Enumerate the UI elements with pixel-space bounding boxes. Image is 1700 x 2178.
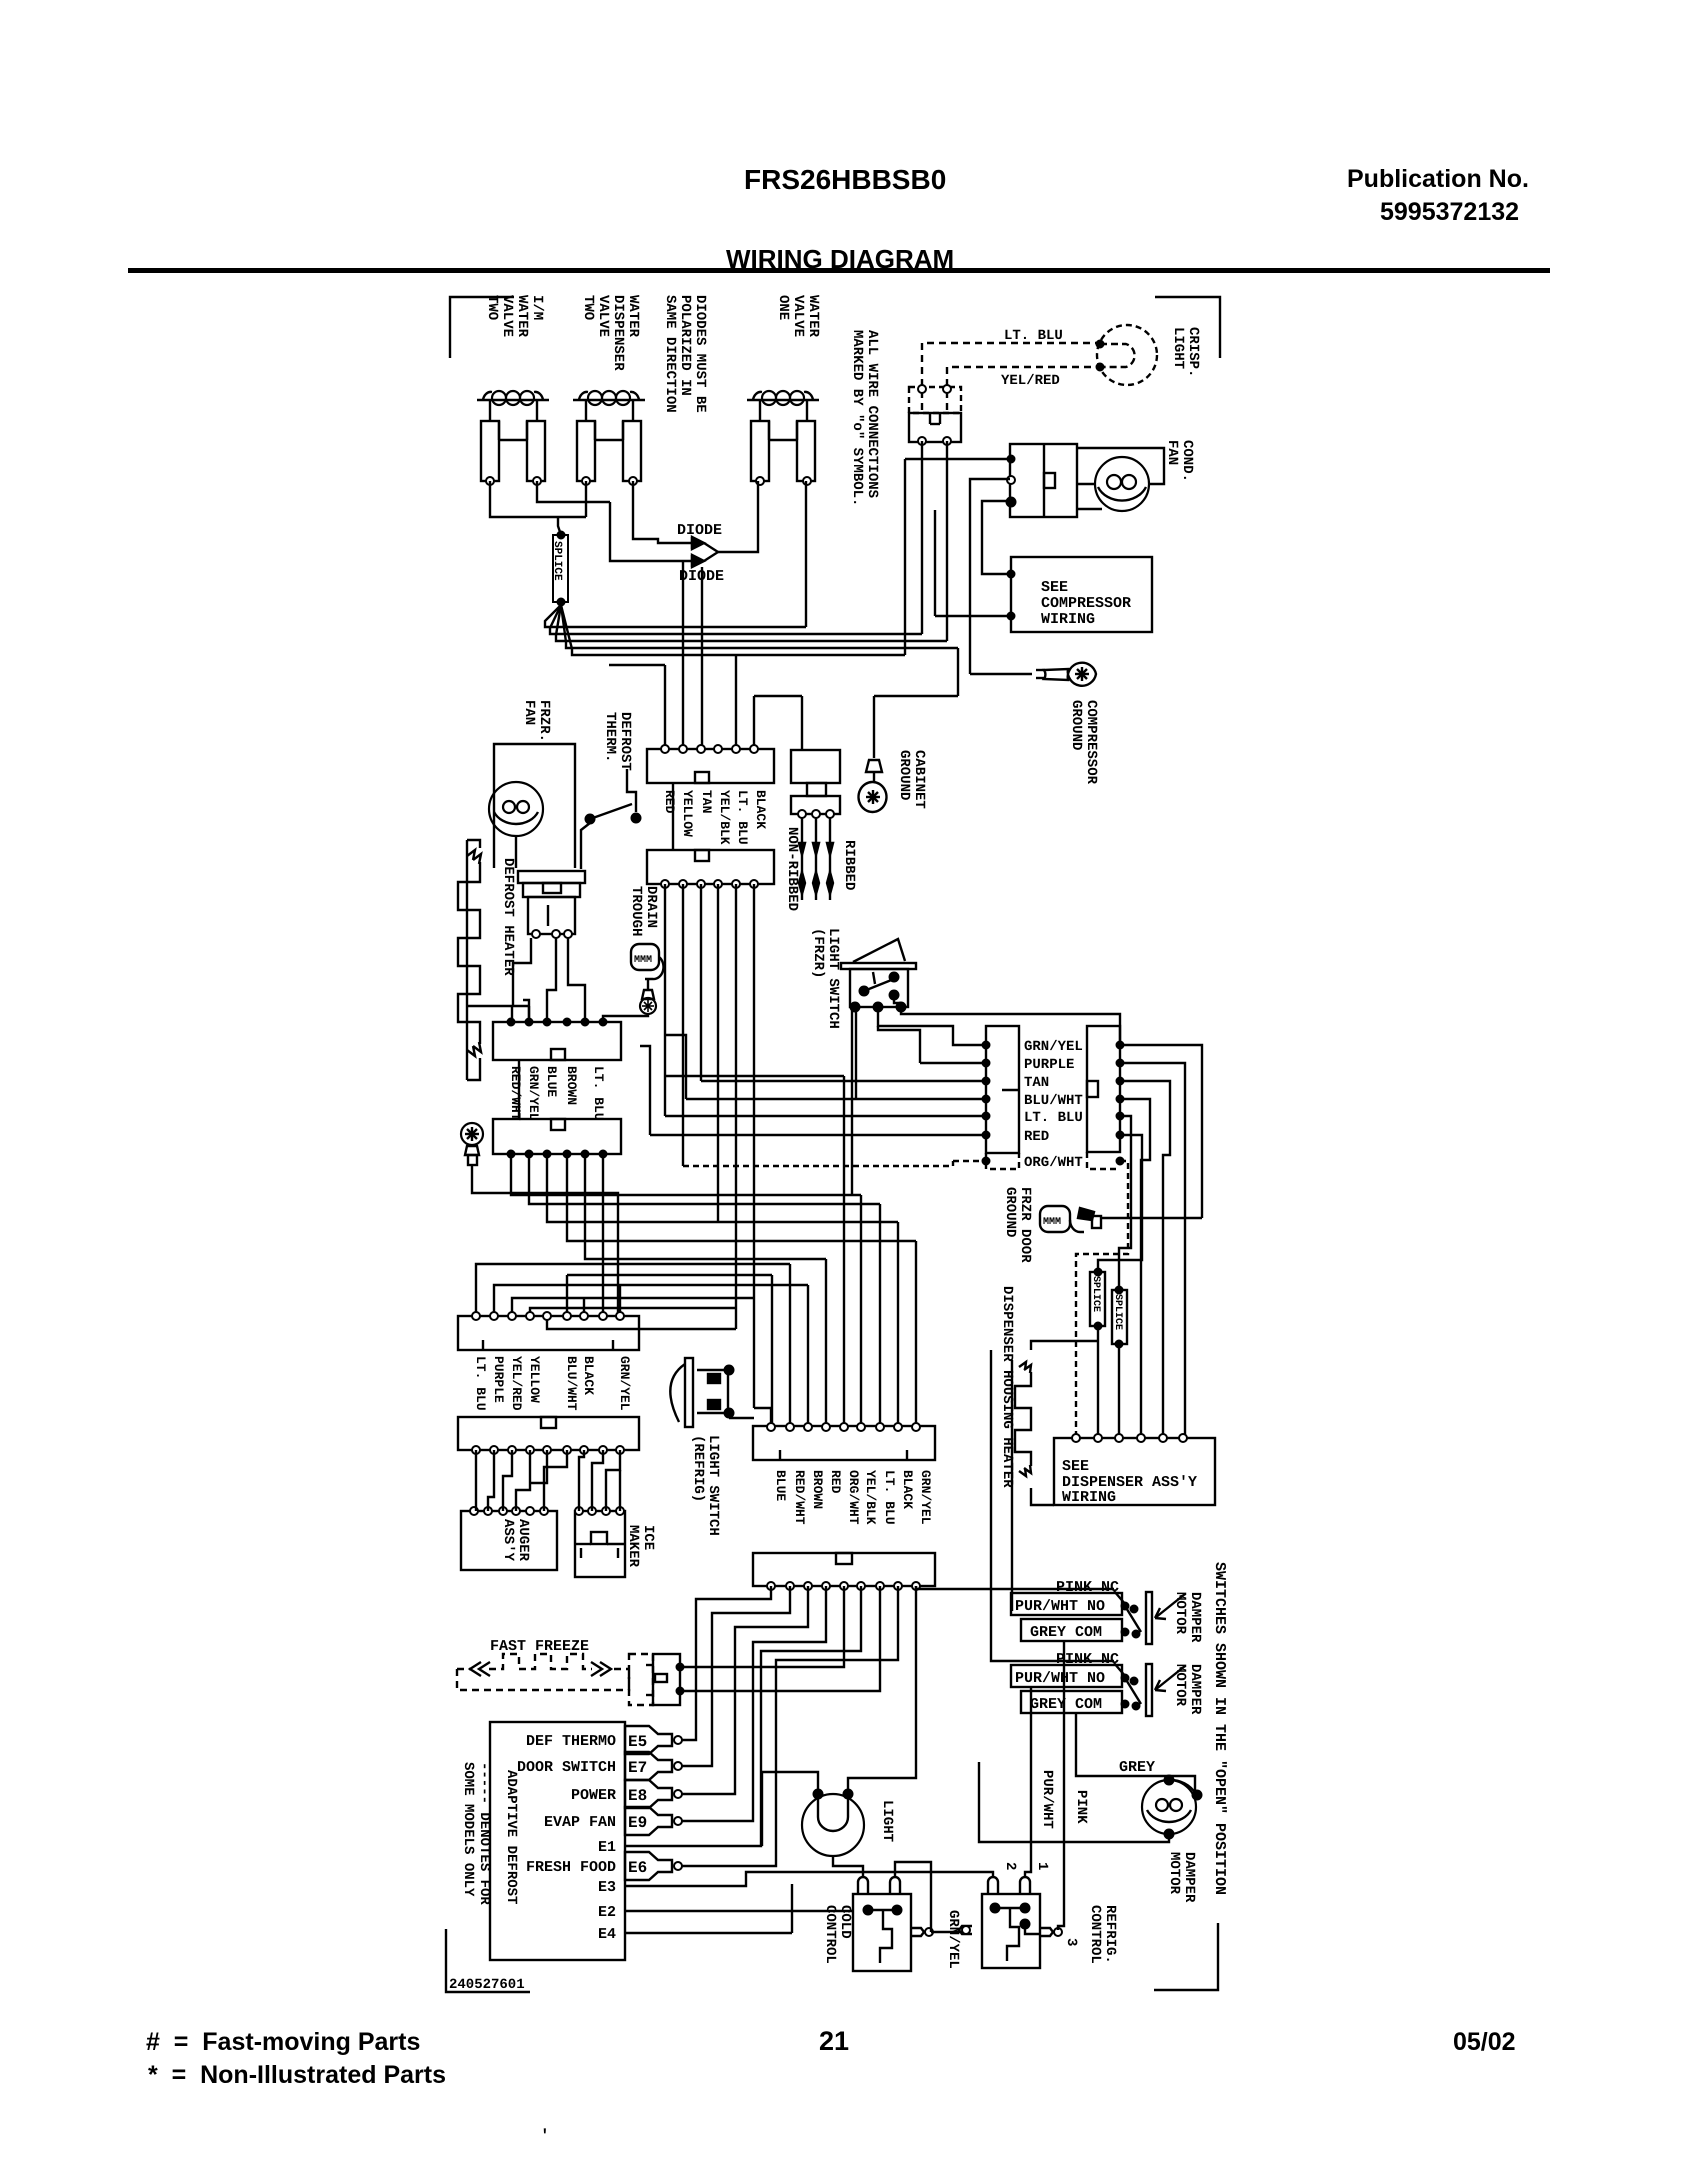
svg-text:VALVE: VALVE [595,295,611,337]
ground pin left [465,1146,479,1155]
wire grey com 1 to pin 3 [1058,1642,1064,1930]
wire purple B2 [1120,1063,1185,1438]
block B2 dashed bottom [1087,1152,1120,1169]
wire grn/yel B2 [1120,1045,1202,1218]
dispenser housing heater element [1015,1372,1031,1466]
svg-text:DAMPER: DAMPER [1187,1664,1203,1715]
svg-text:RIBBED: RIBBED [841,840,857,890]
wire cond fan to bus [905,458,1010,460]
label PUR/WHT vertical [1039,1770,1055,1829]
svg-text:ONE: ONE [775,295,791,320]
wire E1 riser [706,1586,861,1846]
svg-text:POWER: POWER [571,1787,616,1804]
svg-text:AUGER: AUGER [515,1519,531,1562]
svg-text:RED: RED [662,790,677,814]
wire LT. BLU dashed to crisper light [922,343,1100,410]
board plain row wires [625,1845,706,1847]
svg-text:WATER: WATER [514,295,530,338]
svg-text:FAST FREEZE: FAST FREEZE [490,1638,589,1655]
box REFRIG CONTROL [982,1894,1040,1968]
svg-text:DIODE: DIODE [677,522,722,539]
box SEE COMPRESSOR WIRING [1011,557,1152,632]
svg-text:SEE: SEE [1041,579,1068,596]
label SOME MODELS ONLY / DENOTES FOR [460,1762,476,1897]
svg-text:YEL/RED: YEL/RED [509,1356,524,1411]
svg-text:E3: E3 [598,1879,616,1896]
label NON-RIBBED [784,827,800,911]
svg-text:FRZR.: FRZR. [536,700,552,742]
svg-text:2: 2 [1002,1862,1018,1870]
svg-text:240527601: 240527601 [449,1977,525,1993]
wire grey com 2 to damper motor [1076,1712,1195,1793]
svg-text:PUR/WHT NO: PUR/WHT NO [1015,1670,1105,1687]
wire bus jogs [664,665,666,749]
svg-text:COLD: COLD [837,1905,853,1939]
svg-text:PUR/WHT NO: PUR/WHT NO [1015,1598,1105,1615]
label FRZR DOOR GROUND [1002,1187,1033,1263]
svg-text:TAN: TAN [1024,1075,1049,1091]
wire mesh dashed org/wht [953,1160,986,1162]
wire blu/wht B2 [1120,1099,1150,1438]
cabinet ground lug [859,782,887,812]
wire cabinet ground feed [874,695,958,697]
refrig control internal [1007,1908,1019,1961]
note: ALL WIRE CONNECTIONS MARKED BY o SYMBOL [849,330,880,506]
svg-text:YEL/RED: YEL/RED [1001,373,1060,389]
wire E5 riser [682,1586,771,1740]
svg-text:BLU/WHT: BLU/WHT [564,1356,579,1411]
wires light switch to blocks [851,1010,853,1195]
label CRISP. LIGHT [1170,327,1201,377]
svg-text:SAME DIRECTION: SAME DIRECTION [662,295,678,413]
refrig control pins [988,1877,998,1894]
svg-text:TAN: TAN [699,790,714,813]
svg-text:DEF THERMO: DEF THERMO [526,1733,616,1750]
svg-text:EVAP FAN: EVAP FAN [544,1814,616,1831]
wire E3 riser [743,1872,993,1886]
svg-text:WATER: WATER [805,295,821,338]
label LIGHT SWITCH (REFRIG) [690,1435,721,1536]
footer fast-moving [146,2028,420,2057]
svg-text:BLACK: BLACK [581,1356,596,1395]
svg-text:DAMPER: DAMPER [1181,1852,1197,1903]
label SWITCHES SHOWN IN THE OPEN POSITION [1211,1562,1228,1895]
svg-text:WATER: WATER [625,295,641,338]
wire E8 riser [682,1586,808,1794]
wires cold control pins up [833,1857,863,1878]
defrost heater terminal assembly [518,871,585,883]
svg-text:BROWN: BROWN [810,1470,825,1509]
svg-text:----- DENOTES FOR: ----- DENOTES FOR [476,1762,492,1905]
diode output wires [704,543,718,561]
svg-text:E7: E7 [628,1759,647,1777]
footer page number [819,2026,849,2057]
cold control pins [858,1877,868,1894]
wire bundle from splice (5 wires) [545,605,806,627]
wire J3-J4 link [518,1060,520,1119]
svg-text:DISPENSER: DISPENSER [610,295,626,371]
svg-text:ORG/WHT: ORG/WHT [1024,1155,1083,1171]
light switch refrig symbol [685,1358,693,1427]
light switch frzr symbol [841,963,916,969]
svg-text:LIGHT SWITCH: LIGHT SWITCH [705,1435,721,1536]
wire ground to strip A [472,1165,618,1316]
defrost heater element [458,862,480,1044]
connector strip A (9-pin) [458,1316,639,1350]
svg-text:3: 3 [1063,1938,1079,1946]
connector block cond fan [1010,444,1077,517]
svg-text:LT. BLU: LT. BLU [882,1470,897,1525]
svg-text:GROUND: GROUND [1002,1187,1018,1237]
diode D2 [692,555,704,567]
wire light switch refrig [729,1417,754,1419]
wire YEL/RED dashed to crisper light [947,367,1100,410]
svg-text:(REFRIG): (REFRIG) [690,1435,706,1502]
note: DIODES MUST BE POLARIZED IN SAME DIRECTION [662,295,708,413]
connector block B1 (grn/yel..org/wht) [986,1026,1019,1153]
wire E4 riser [791,1884,793,1933]
svg-text:MMM: MMM [634,955,652,966]
svg-text:E4: E4 [598,1926,616,1943]
svg-text:TWO: TWO [484,295,500,320]
light bulb [802,1794,864,1856]
svg-text:LIGHT: LIGHT [1170,327,1186,369]
crisper light lamp [1097,325,1157,385]
label DEFROST HEATER [500,858,516,976]
svg-text:E9: E9 [628,1814,647,1832]
wire splice S1 down [1097,1326,1099,1438]
drain trough heater [631,944,659,970]
svg-text:E6: E6 [628,1859,647,1877]
connector strip B (9-pin) [458,1417,639,1450]
svg-text:DEFROST: DEFROST [617,712,633,771]
wire fast freeze feeds [680,1586,844,1667]
svg-text:GREY COM: GREY COM [1030,1624,1102,1641]
wire risers to strip B1 [771,1275,773,1427]
wire red B2 [1098,1135,1142,1272]
wire lt.blu B2 [1119,1116,1131,1290]
svg-text:CONTROL: CONTROL [822,1905,838,1964]
diode D1 [692,537,704,549]
splice S2 [1112,1290,1127,1344]
svg-text:GREY: GREY [1119,1759,1155,1776]
svg-text:DOOR SWITCH: DOOR SWITCH [517,1759,616,1776]
box AUGER ASS'Y [461,1511,557,1570]
wire tan B2 [1120,1081,1170,1438]
svg-text:(FRZR): (FRZR) [810,928,826,978]
compressor ground lug [1044,663,1096,686]
svg-text:LT. BLU: LT. BLU [1024,1110,1083,1126]
frame corner top-left [450,297,514,358]
svg-text:ASS'Y: ASS'Y [500,1519,516,1562]
wire defrost heater bottom [467,1058,480,1080]
wire E9 riser [682,1586,826,1821]
svg-text:1: 1 [1034,1862,1050,1870]
svg-text:ALL WIRE CONNECTIONS: ALL WIRE CONNECTIONS [864,330,880,498]
wire to compressor wiring box [935,615,1011,617]
frame corner top-right [1155,297,1220,358]
svg-text:DIODES MUST BE: DIODES MUST BE [692,295,708,413]
svg-text:LT. BLU: LT. BLU [735,790,750,845]
svg-text:YEL/BLK: YEL/BLK [863,1470,878,1525]
cold control internal [880,1910,892,1963]
wire valve1-right to bus [537,481,610,502]
svg-text:LT. BLU: LT. BLU [473,1356,488,1411]
svg-text:CRISP.: CRISP. [1185,327,1201,377]
svg-text:FAN: FAN [521,700,537,725]
label COMPRESSOR GROUND [1068,700,1099,785]
label LIGHT SWITCH (FRZR) [810,928,841,1029]
pin labels 2 and 1 [1002,1862,1018,1870]
svg-text:MMM: MMM [1043,1217,1061,1228]
solenoid valve: I/M WATER VALVE TWO [477,399,549,401]
wire long riser x844 [843,1076,845,1427]
wire pur/wht no 1 feed [1011,1360,1013,1611]
box SEE DISPENSER ASS'Y WIRING [1054,1438,1215,1505]
svg-text:GROUND: GROUND [1068,700,1084,750]
svg-text:RED/WHT: RED/WHT [792,1470,807,1525]
wire pur/wht no 2 to pin 1 [1025,1688,1031,1878]
svg-text:MARKED BY "o" SYMBOL.: MARKED BY "o" SYMBOL. [849,330,865,506]
svg-text:LT. BLU: LT. BLU [1004,328,1063,344]
svg-text:LT. BLU: LT. BLU [591,1066,606,1121]
frzr door ground heater [1040,1206,1070,1232]
label COLD CONTROL [822,1905,853,1964]
svg-text:GRN/YEL: GRN/YEL [945,1910,961,1969]
svg-text:VALVE: VALVE [790,295,806,337]
wire mesh row 1308 [530,1308,736,1316]
solenoid valve: WATER DISPENSER VALVE TWO [573,399,645,401]
connector block B2 [1087,1026,1120,1152]
title [726,244,954,275]
svg-text:MOTOR: MOTOR [1172,1592,1188,1635]
svg-text:FAN: FAN [1164,440,1180,465]
svg-text:DAMPER: DAMPER [1187,1592,1203,1643]
wire frzr door ground to bus [1101,1217,1202,1219]
splice S1 [1090,1272,1105,1326]
svg-text:YEL/BLK: YEL/BLK [717,790,732,845]
wires light feeds [762,1772,818,1846]
wire dispenser heater bottom [1031,1488,1054,1505]
svg-text:ICE: ICE [640,1525,656,1550]
wires strip B to auger [475,1450,477,1511]
wire valve1 to splice [490,481,586,517]
svg-text:E8: E8 [628,1787,647,1805]
label PINK vertical [1073,1790,1089,1824]
svg-text:SPLICE: SPLICE [551,541,563,581]
box ICE MAKER [575,1511,625,1577]
svg-text:FRESH FOOD: FRESH FOOD [526,1859,616,1876]
svg-text:SPLICE: SPLICE [1112,1294,1123,1330]
wire mesh row 1298 [512,1298,754,1316]
damper motor [1142,1780,1196,1834]
fast freeze switch [629,1654,653,1705]
label LIGHT [879,1800,895,1842]
wire J1-J2 link [672,783,674,850]
label COND. FAN [1164,440,1195,482]
wire org/wht B2 dashed [1076,1161,1128,1438]
connector supply plug (ribbed/non-ribbed) [791,750,840,783]
svg-text:SWITCHES SHOWN IN THE "OPEN" P: SWITCHES SHOWN IN THE "OPEN" POSITION [1211,1562,1228,1895]
wire E7 riser [682,1586,790,1766]
label ICE MAKER [625,1525,656,1568]
svg-text:BROWN: BROWN [564,1066,579,1105]
frzr fan enclosure [494,744,575,868]
wire bus verticals from J2 down [664,884,666,1116]
svg-text:COMPRESSOR: COMPRESSOR [1083,700,1099,785]
ground lug left [461,1123,483,1145]
labels strip A wire colors [473,1356,488,1411]
svg-text:BLACK: BLACK [753,790,768,829]
label FRZR. FAN [521,700,552,742]
cond fan motor [1095,457,1149,511]
svg-text:TWO: TWO [580,295,596,320]
svg-text:DRAIN: DRAIN [643,886,659,928]
svg-text:GRN/YEL: GRN/YEL [918,1470,933,1525]
refrig left pin [959,1926,972,1934]
svg-text:WIRING: WIRING [1041,611,1095,628]
svg-text:E2: E2 [598,1904,616,1921]
svg-text:GRN/YEL: GRN/YEL [526,1066,541,1121]
wire dispenser heater top [1031,1341,1098,1350]
svg-text:DEFROST HEATER: DEFROST HEATER [500,858,516,976]
dispenser heater arrows [1019,1362,1031,1373]
label GRN/YEL vertical [945,1910,961,1969]
wire valve2-left down [585,481,587,517]
wire mesh row 1408 [754,1408,771,1427]
wire diode bus down [682,560,684,749]
svg-text:YELLOW: YELLOW [527,1356,542,1403]
connector strip B1 (9-pin) [753,1426,935,1460]
defrost heater arrows [467,850,481,864]
drain trough ground pin [647,979,649,990]
svg-text:RED/WHT: RED/WHT [508,1066,523,1121]
svg-text:ORG/WHT: ORG/WHT [846,1470,861,1525]
svg-text:GREY COM: GREY COM [1030,1696,1102,1713]
block B1 dashed bottom (org/wht) [986,1153,1019,1169]
supply wires with pins [801,818,803,843]
svg-text:MOTOR: MOTOR [1166,1852,1182,1895]
wire defrost heater top [467,840,480,848]
svg-text:MAKER: MAKER [625,1525,641,1568]
svg-text:SEE: SEE [1062,1458,1089,1475]
labels strip J1 wire colors [662,790,677,814]
solenoid valve: WATER VALVE ONE [747,399,819,401]
svg-text:CABINET: CABINET [911,750,927,809]
footer date [1453,2028,1516,2057]
frame corner bottom-left [446,1929,530,1992]
fast freeze dashed element [489,1654,592,1669]
labels strip B1 wire colors [773,1470,788,1501]
svg-text:BLACK: BLACK [900,1470,915,1509]
svg-text:': ' [540,2127,550,2145]
label CABINET GROUND [896,750,927,809]
svg-text:THERM.: THERM. [602,712,618,762]
wire mesh staircase from J4 [511,1154,861,1195]
svg-text:POLARIZED IN: POLARIZED IN [677,295,693,396]
svg-text:REFRIG.: REFRIG. [1102,1905,1118,1964]
header model number [744,164,946,196]
svg-text:E1: E1 [598,1839,616,1856]
svg-text:VALVE: VALVE [499,295,515,337]
wire splice bundle risers [805,481,807,627]
svg-text:PUR/WHT: PUR/WHT [1039,1770,1055,1829]
wire E6 riser [682,1586,898,1866]
frame corner bottom-right [1154,1923,1218,1990]
svg-text:PURPLE: PURPLE [1024,1057,1074,1073]
svg-text:YELLOW: YELLOW [680,790,695,837]
svg-text:E5: E5 [628,1733,647,1751]
wire pink nc 1 [916,1588,1114,1590]
wire J3 dot2 feed [523,1000,529,1022]
refrig control side pin 3 [1040,1928,1053,1936]
wire drain trough feed [603,1014,648,1022]
box COLD CONTROL [853,1894,911,1971]
box ADAPTIVE DEFROST board [490,1722,625,1960]
wire damper motor bottom [979,1762,1169,1842]
header publication no [1347,165,1529,194]
label DAMPER MOTOR (bottom) [1166,1852,1197,1903]
title rule [128,268,1550,273]
svg-text:PURPLE: PURPLE [491,1356,506,1403]
label DEFROST THERM. [602,712,633,771]
label DISPENSER HOUSING HEATER [999,1286,1015,1488]
cabinet ground wire [873,696,875,758]
label RIBBED [841,840,857,890]
wire mesh row 1285 [494,1285,808,1316]
svg-text:ADAPTIVE DEFROST: ADAPTIVE DEFROST [503,1770,519,1904]
wire compressor ground lead [970,673,1032,675]
svg-text:BLUE: BLUE [544,1066,559,1097]
svg-text:RED: RED [828,1470,843,1494]
svg-text:COMPRESSOR: COMPRESSOR [1041,595,1131,612]
svg-text:GROUND: GROUND [896,750,912,800]
diode input wires [633,481,692,543]
wire assembly feeds [513,938,531,1006]
connector strip J2 [647,850,774,884]
wire heater to J3 [466,840,468,1080]
wire mesh horizontals to block B1 [701,1080,986,1082]
svg-text:GRN/YEL: GRN/YEL [1024,1039,1083,1055]
connector strip B2 (9-pin) [753,1553,935,1586]
svg-text:WIRING: WIRING [1062,1489,1116,1506]
svg-text:GRN/YEL: GRN/YEL [617,1356,632,1411]
svg-text:CONTROL: CONTROL [1087,1905,1103,1964]
wire mesh row 1264 [476,1264,790,1316]
svg-text:MOTOR: MOTOR [1172,1664,1188,1707]
svg-text:SPLICE: SPLICE [1090,1276,1101,1312]
connector plug crisper light [909,387,961,413]
cond fan frame wires [1077,448,1164,484]
svg-text:LIGHT: LIGHT [879,1800,895,1842]
svg-text:TROUGH: TROUGH [628,886,644,936]
cold control side pin [911,1928,924,1936]
connector strip J4 [493,1119,621,1154]
wire mesh row 1329 [547,1316,736,1329]
connector strip J1 (black/lt.blu/yel-blk/tan/yellow/red) [647,749,774,783]
svg-text:NON-RIBBED: NON-RIBBED [784,827,800,911]
svg-text:FRZR DOOR: FRZR DOOR [1017,1187,1033,1263]
label REFRIG. CONTROL [1087,1905,1118,1964]
wire pink nc 2 feed [991,1350,1114,1661]
connector strip J3 [493,1022,621,1060]
svg-text:I/M: I/M [529,295,545,320]
svg-text:BLUE: BLUE [773,1470,788,1501]
svg-text:LIGHT SWITCH: LIGHT SWITCH [825,928,841,1029]
wire mesh row 1275 [567,1274,772,1276]
svg-text:PINK: PINK [1073,1790,1089,1824]
svg-text:SOME MODELS ONLY: SOME MODELS ONLY [460,1762,476,1897]
